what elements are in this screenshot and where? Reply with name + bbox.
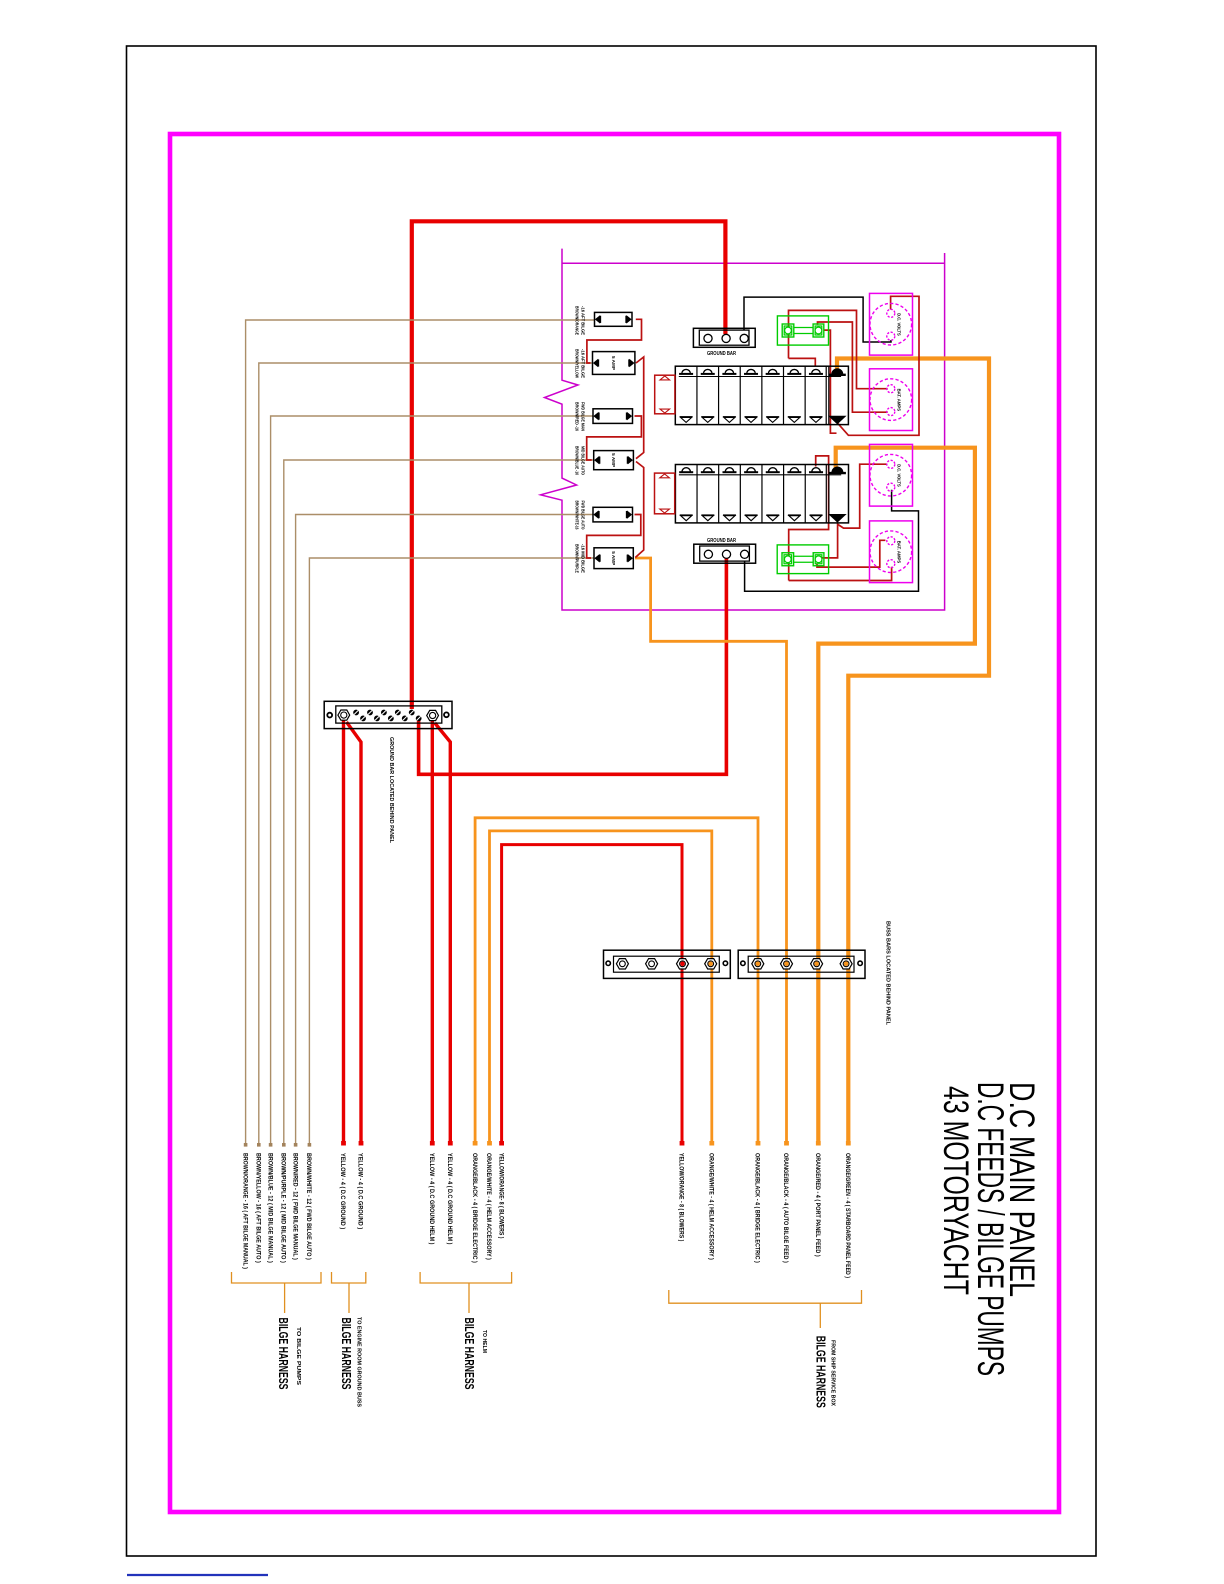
svg-text:FWD BILGE MAN: FWD BILGE MAN <box>581 402 586 431</box>
svg-text:BILGE HARNESS: BILGE HARNESS <box>276 1318 291 1390</box>
svg-text:ORANGE/BLACK - 4 ( BRIDGE ELEC: ORANGE/BLACK - 4 ( BRIDGE ELECTRIC ) <box>471 1153 478 1263</box>
svg-text:BAT. AMPS: BAT. AMPS <box>897 541 902 564</box>
svg-text:43 MOTORYACHT: 43 MOTORYACHT <box>936 1086 975 1295</box>
svg-text:D.C. VOLTS: D.C. VOLTS <box>897 313 902 336</box>
svg-text:MID BILGE AUTO: MID BILGE AUTO <box>581 446 586 475</box>
svg-text:BROWN/ORANGE - 16 ( AFT BILGE: BROWN/ORANGE - 16 ( AFT BILGE MANUAL ) <box>241 1153 248 1269</box>
svg-text:YELLOW - 4 ( D.C GROUND HELM ): YELLOW - 4 ( D.C GROUND HELM ) <box>428 1153 435 1245</box>
svg-text:5 AMP: 5 AMP <box>611 551 616 565</box>
svg-text:YELLOW/ORANGE - 8 ( BLOWERS ): YELLOW/ORANGE - 8 ( BLOWERS ) <box>678 1153 685 1241</box>
svg-text:-16 AFT BILGE: -16 AFT BILGE <box>581 306 586 335</box>
svg-text:TO BILGE PUMPS: TO BILGE PUMPS <box>295 1327 301 1385</box>
svg-text:BROWN/BLUE - 12 ( MID BILGE MA: BROWN/BLUE - 12 ( MID BILGE MANUAL ) <box>266 1153 273 1263</box>
svg-text:D.C FEEDS / BILGE PUMPS: D.C FEEDS / BILGE PUMPS <box>970 1082 1011 1376</box>
svg-text:5 AMP: 5 AMP <box>611 356 616 370</box>
svg-text:ORANGE/WHITE - 4 ( HELM ACCESS: ORANGE/WHITE - 4 ( HELM ACCESSORY ) <box>708 1153 715 1260</box>
svg-text:BROWN/RED - 12 ( FWD BILGE MAN: BROWN/RED - 12 ( FWD BILGE MANUAL ) <box>291 1153 298 1260</box>
svg-text:ORANGE/BLACK - 4 ( BRIDGE ELEC: ORANGE/BLACK - 4 ( BRIDGE ELECTRIC ) <box>754 1153 761 1263</box>
svg-text:BROWN/PURPLE - 12 ( MID BILGE: BROWN/PURPLE - 12 ( MID BILGE AUTO ) <box>280 1153 287 1263</box>
svg-text:5 AMP: 5 AMP <box>611 453 616 467</box>
svg-text:ORANGE/RED - 4 ( PORT PANEL FE: ORANGE/RED - 4 ( PORT PANEL FEED ) <box>814 1153 821 1257</box>
svg-text:TO HELM: TO HELM <box>481 1330 487 1353</box>
svg-text:YELLOW - 4 ( D.C GROUND HELM ): YELLOW - 4 ( D.C GROUND HELM ) <box>446 1153 453 1245</box>
svg-text:GROUND BAR: GROUND BAR <box>707 538 736 544</box>
svg-text:-16 AFT BILGE: -16 AFT BILGE <box>581 349 586 378</box>
svg-text:BROWN/WHITE-16: BROWN/WHITE-16 <box>575 501 580 530</box>
svg-text:D.C. VOLTS: D.C. VOLTS <box>897 464 902 487</box>
svg-text:ORANGE/GREEN - 4 ( STARBOARD P: ORANGE/GREEN - 4 ( STARBOARD PANEL FEED … <box>844 1153 851 1278</box>
svg-text:BROWN/YELLOW - 16 ( AFT BILGE: BROWN/YELLOW - 16 ( AFT BILGE AUTO ) <box>255 1153 262 1263</box>
svg-text:TO ENGINE ROOM GROUND BUSS: TO ENGINE ROOM GROUND BUSS <box>356 1317 362 1407</box>
svg-text:GROUND BAR LOCATED BEHIND PANE: GROUND BAR LOCATED BEHIND PANEL <box>388 737 394 844</box>
svg-text:ORANGE/WHITE - 4 ( HELM ACCESS: ORANGE/WHITE - 4 ( HELM ACCESSORY ) <box>485 1153 492 1260</box>
svg-text:BROWN/WHITE - 12 ( FWD BILGE A: BROWN/WHITE - 12 ( FWD BILGE AUTO ) <box>305 1153 312 1260</box>
svg-text:BILGE HARNESS: BILGE HARNESS <box>339 1318 354 1390</box>
svg-text:BROWN/YELLOW: BROWN/YELLOW <box>575 349 580 379</box>
svg-text:YELLOW - 4 ( D.C GROUND ): YELLOW - 4 ( D.C GROUND ) <box>357 1153 364 1229</box>
svg-text:FROM SHIP SERVICE BOX: FROM SHIP SERVICE BOX <box>830 1340 836 1406</box>
svg-text:BILGE HARNESS: BILGE HARNESS <box>814 1336 829 1408</box>
svg-text:BILGE HARNESS: BILGE HARNESS <box>462 1318 477 1390</box>
svg-text:GROUND BAR: GROUND BAR <box>707 351 736 357</box>
svg-text:BROWN/ORANGE: BROWN/ORANGE <box>575 306 580 335</box>
svg-text:BROWN/BLUE -16: BROWN/BLUE -16 <box>575 446 580 475</box>
svg-text:BROWN/PURPLE: BROWN/PURPLE <box>575 544 580 573</box>
svg-text:BUSS BARS LOCATED BEHIND PANEL: BUSS BARS LOCATED BEHIND PANEL <box>885 921 891 1026</box>
svg-text:-16 MID BILGE: -16 MID BILGE <box>581 544 586 573</box>
svg-text:YELLOW - 4 ( D.C GROUND ): YELLOW - 4 ( D.C GROUND ) <box>339 1153 346 1229</box>
svg-text:YELLOW/ORANGE- 8 ( BLOWERS ): YELLOW/ORANGE- 8 ( BLOWERS ) <box>497 1153 504 1238</box>
svg-text:BROWN/RED -16: BROWN/RED -16 <box>575 402 580 431</box>
svg-text:BAT. AMPS: BAT. AMPS <box>897 389 902 412</box>
svg-text:ORANGE/BLACK - 4 ( AUTO BILGE: ORANGE/BLACK - 4 ( AUTO BILGE FEED ) <box>782 1153 789 1263</box>
svg-text:FWD BILGE AUTO: FWD BILGE AUTO <box>581 501 586 530</box>
